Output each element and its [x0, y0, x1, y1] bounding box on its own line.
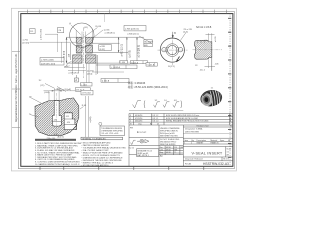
svg-text:.XX ±.01 .XXX ±.005: .XX ±.01 .XXX ±.005 [101, 133, 118, 135]
extension lines to right dims [93, 37, 158, 65]
svg-text:FW: FW [130, 128, 133, 130]
name grid [164, 146, 166, 155]
leader arc left of flange [66, 62, 72, 68]
svg-text:REMOVE BURRS: REMOVE BURRS [160, 144, 176, 146]
arrows on left dim chain [66, 37, 68, 63]
svg-text:INSERT: INSERT [197, 143, 205, 145]
svg-text:3RD ANGLE PROJ: 3RD ANGLE PROJ [160, 141, 176, 144]
svg-text:体积: 3.369346: 体积: 3.369346 [128, 81, 146, 85]
section profile hatched [194, 40, 211, 59]
svg-text:10. SAMPLE INSPECTION PLAN AQL: 10. SAMPLE INSPECTION PLAN AQL 1.0 LVL I… [35, 163, 80, 166]
below-part extension lines [64, 63, 96, 75]
svg-text:Spec: Spec [220, 140, 224, 142]
parts header rows [183, 137, 233, 139]
svg-text:[19.05]: [19.05] [23, 42, 30, 44]
svg-text:By: By [150, 123, 152, 125]
svg-text:Item: Item [184, 139, 188, 142]
FCF stacked boxes [144, 40, 152, 44]
left zone ticks [12, 52, 21, 128]
column divider lines [158, 125, 160, 166]
svg-text:1.6: 1.6 [164, 100, 167, 102]
svg-text:TOLERANCES UNLESS: TOLERANCES UNLESS [101, 127, 123, 130]
svg-text:GENERAL TOLERANCES: GENERAL TOLERANCES [82, 137, 106, 140]
svg-text:15°: 15° [29, 96, 32, 98]
left small hole [162, 48, 166, 52]
right col texts [184, 124, 232, 165]
svg-text:DO NOT SCALE DWG: DO NOT SCALE DWG [160, 138, 180, 141]
svg-text:JW: JW [180, 147, 183, 149]
extra check symbol in cell [131, 140, 136, 144]
svg-text:[4.3]: [4.3] [184, 32, 188, 34]
svg-text:E x c e l: E x c e l [137, 130, 147, 134]
svg-text:[8.51]: [8.51] [100, 49, 106, 51]
boxed dim top-left [58, 28, 64, 33]
svg-text:1:1: 1:1 [211, 88, 214, 90]
svg-text:Sh 1/1: Sh 1/1 [223, 159, 228, 161]
svg-text:Revision chart: Revision chart [197, 124, 209, 127]
left angle leaders [31, 98, 42, 104]
paper edge [11, 8, 236, 171]
main horizontal divisions (left+mid cols) [129, 137, 183, 139]
boxed dim right of part [99, 45, 112, 51]
svg-text:.197±.002: .197±.002 [82, 93, 92, 95]
closing parenthesis [180, 101, 183, 109]
svg-text:[⌀19.037±.013]: [⌀19.037±.013] [41, 62, 55, 65]
part mid-left ring block (hatched) [76, 46, 82, 53]
svg-text:TL: TL [174, 152, 176, 154]
top shadow crescent [201, 90, 214, 96]
svg-text:Eng: Eng [160, 152, 163, 154]
svg-text:(⌀.875): (⌀.875) [129, 50, 132, 58]
svg-text:(4:1): (4:1) [84, 27, 88, 29]
svg-text:SEE SHEET NOTES: SEE SHEET NOTES [160, 136, 178, 138]
svg-text:.015: .015 [66, 116, 70, 118]
top ruler ticks [28, 10, 227, 14]
svg-text:Allgemeintoleranzen ISO 2768-m: Allgemeintoleranzen ISO 2768-mK / Form u… [15, 53, 18, 122]
slot lines [166, 47, 168, 49]
svg-text:1: 1 [191, 143, 192, 145]
slot extension lines [44, 90, 89, 101]
svg-text:Designation: V-SEAL: Designation: V-SEAL [185, 127, 203, 130]
svg-text:⌀.7495±.0005: ⌀.7495±.0005 [41, 59, 55, 62]
material box [137, 149, 159, 157]
hatched body with T cavity (even-odd) [35, 98, 79, 135]
check 3 [173, 102, 179, 108]
section cutting arrow lower-right [177, 57, 180, 61]
svg-text:⌀.433 [11.0]: ⌀.433 [11.0] [120, 44, 123, 56]
detail bubble circle [70, 23, 94, 47]
slot centerline [56, 93, 58, 134]
svg-text:03/04/16: 03/04/16 [135, 121, 142, 123]
FCF row right of part [130, 61, 147, 64]
svg-text:⌀.906 [⌀23.01]: ⌀.906 [⌀23.01] [125, 28, 139, 31]
svg-text:[12.0]: [12.0] [87, 73, 93, 75]
svg-text:⌀.610: ⌀.610 [54, 88, 60, 91]
body [199, 88, 223, 107]
svg-text:1:1: 1:1 [227, 151, 230, 153]
svg-text:Scale: Scale [227, 149, 232, 151]
svg-text:Description: Description [197, 139, 206, 142]
svg-text:⌀.335 [8.5]: ⌀.335 [8.5] [105, 31, 115, 34]
svg-text:15°: 15° [39, 80, 42, 82]
extra ext lines above part [58, 29, 125, 72]
svg-text:09/10/16: 09/10/16 [135, 115, 142, 117]
svg-text:A (4:1): A (4:1) [58, 135, 65, 138]
svg-text:⌀(.40): ⌀(.40) [89, 116, 92, 122]
bottom zone ticks [40, 166, 204, 170]
outer frame [18, 11, 234, 168]
svg-text:1: 1 [130, 121, 131, 123]
svg-text:DX 1.2: DX 1.2 [153, 115, 159, 117]
svg-text:2X ⌀.170: 2X ⌀.170 [184, 28, 193, 31]
svg-text:R.010: R.010 [96, 26, 102, 28]
svg-text:Dwg state: Released: Dwg state: Released [185, 158, 202, 161]
svg-text:(⌀.59): (⌀.59) [104, 28, 110, 31]
svg-text:3.2: 3.2 [155, 100, 158, 102]
bubble leader [71, 25, 80, 34]
right leader [80, 107, 84, 110]
svg-text:Fmt A3: Fmt A3 [185, 162, 191, 165]
front face [200, 92, 213, 107]
svg-text:⌀.335: ⌀.335 [100, 45, 106, 48]
short vertical dim line right of part [97, 55, 99, 74]
svg-text:Ra 3.2: Ra 3.2 [129, 147, 135, 149]
horizontal centerline [158, 49, 188, 51]
svg-text:MAT: NOTE 1: MAT: NOTE 1 [137, 154, 149, 157]
datum FCF below-left [146, 63, 157, 67]
svg-text:Chg: Chg [138, 123, 141, 125]
main frame [21, 14, 233, 167]
FCF row box under part [110, 65, 137, 69]
svg-text:ECN 16-0108 ADDED NOTE 5 & DIM: ECN 16-0108 ADDED NOTE 5 & DIM [166, 117, 198, 120]
part mid-right ring block (hatched) [86, 46, 93, 53]
svg-text:Material: Material [211, 139, 218, 142]
leader to hole [180, 33, 186, 42]
part top-left ring block (hatched) [76, 37, 82, 43]
mid circle [166, 44, 179, 57]
svg-text:⌀1.06 [26.9]: ⌀1.06 [26.9] [137, 45, 140, 58]
svg-text:2: 2 [130, 118, 131, 120]
svg-text:⌀.750: ⌀.750 [23, 39, 29, 42]
datum flag A [75, 78, 79, 82]
svg-text:Schnitt 1:1 B-B: Schnitt 1:1 B-B [196, 26, 212, 29]
vertical centerline [171, 35, 173, 66]
circled note marker [99, 122, 102, 125]
cavity step lines [52, 119, 75, 124]
svg-text:⌀.375 [9.5]: ⌀.375 [9.5] [68, 72, 78, 75]
dim arrows above [52, 90, 62, 92]
right ruler [228, 15, 231, 165]
svg-text:7°: 7° [29, 114, 31, 116]
big check symbol [133, 101, 141, 108]
rib stripes [210, 89, 220, 106]
svg-text:⊙⌀.01 A: ⊙⌀.01 A [131, 61, 139, 64]
top dim cluster leaders [80, 28, 103, 41]
svg-text:A3: A3 [227, 154, 229, 157]
svg-text:⌀.547: ⌀.547 [64, 65, 70, 68]
svg-text:Apv: Apv [160, 155, 163, 158]
second FCF row box below part [101, 79, 129, 83]
svg-text:⌖ ⌀.01 A: ⌖ ⌀.01 A [147, 63, 155, 66]
svg-text:⌀.575±.002: ⌀.575±.002 [39, 28, 42, 40]
small top leader mark [103, 14, 105, 22]
groove band lines [76, 44, 92, 53]
part top-right ring block (hatched) [86, 37, 93, 43]
svg-text:• STORE PER SAE ARP5316: • STORE PER SAE ARP5316 [82, 164, 110, 167]
small 2-cell box below part [81, 83, 93, 86]
groove notches on left edge [198, 40, 204, 43]
bore hole [204, 97, 209, 102]
section horizontal centerline [193, 49, 223, 51]
svg-text:(.024): (.024) [44, 92, 50, 94]
title block texts [129, 128, 184, 158]
parenthesis [143, 101, 146, 109]
top section arrow [172, 32, 174, 37]
svg-text:∥ .002 A: ∥ .002 A [102, 80, 110, 83]
angled leader to circle [139, 36, 152, 44]
svg-text:1: 1 [184, 143, 185, 145]
part flange-right block (hatched) [86, 55, 97, 63]
svg-text:09/16: 09/16 [166, 152, 171, 154]
small box far top-left [30, 29, 35, 34]
svg-text:⊥ .001: ⊥ .001 [81, 83, 87, 86]
svg-text:15°: 15° [195, 65, 198, 67]
boxed note right of detail [100, 126, 125, 136]
svg-text:0.8: 0.8 [174, 100, 177, 102]
dim arrows below [205, 65, 216, 67]
long extension line left [30, 41, 78, 43]
flange mid line [73, 58, 82, 60]
svg-text:HSSTRW-032-A3: HSSTRW-032-A3 [203, 162, 229, 166]
svg-text:ECN 16-0214 REV PER DWG 1.05: ECN 16-0214 REV PER DWG 1.05 min [166, 115, 199, 117]
svg-text:材质: 25.50-123.48/W (3904-2013): 材质: 25.50-123.48/W (3904-2013) [128, 85, 168, 89]
left dim chain [67, 37, 77, 63]
svg-text:(.21): (.21) [40, 85, 45, 87]
svg-text:.020: .020 [67, 122, 71, 124]
right face edge/extension line [211, 41, 213, 71]
svg-text:Qty: Qty [191, 139, 194, 142]
svg-text:A: A [75, 78, 77, 82]
dwg row divider [183, 133, 233, 135]
boxed dim row left-low [40, 58, 64, 66]
bore circle [168, 45, 177, 54]
svg-text:.126: .126 [53, 120, 57, 122]
svg-text:V-SEAL INSERT: V-SEAL INSERT [192, 151, 223, 155]
svg-text:INITIAL RELEASE FOR PRODUCTION: INITIAL RELEASE FOR PRODUCTION TOOLING [166, 120, 209, 123]
boxed dim left of FCF row [120, 61, 128, 64]
outer circle [160, 38, 184, 62]
right col: revision chart band [183, 126, 233, 128]
below-part long ext lines [85, 63, 87, 84]
title cell separator [225, 147, 227, 158]
svg-text:HNBR 70: HNBR 70 [211, 143, 219, 145]
right vertical dimension lines [119, 37, 137, 63]
check 2 [163, 102, 169, 108]
right small hole [178, 48, 182, 52]
boxed dim above detail right [81, 90, 93, 95]
projection symbol [137, 139, 149, 143]
part vertical centerline [83, 28, 85, 79]
svg-text:3: 3 [130, 115, 131, 117]
svg-text:DX 1.0: DX 1.0 [153, 121, 159, 123]
svg-text:⌀1.31: ⌀1.31 [214, 36, 217, 42]
right notes header box [81, 137, 123, 140]
part flange-left block (hatched) [73, 55, 82, 63]
svg-text:INCH [mm] ⌀.005: INCH [mm] ⌀.005 [160, 132, 175, 135]
svg-text:⌀.846 [21.5]: ⌀.846 [21.5] [127, 33, 138, 36]
right vertical ext lines + rotated dim [85, 96, 87, 138]
left notes header bar [35, 139, 76, 141]
svg-text:07/22/16: 07/22/16 [135, 118, 142, 120]
svg-text:1.094: 1.094 [120, 62, 125, 64]
face ring line [201, 93, 212, 105]
svg-text:.21±.1: .21±.1 [199, 69, 206, 71]
svg-text:DX 1.1: DX 1.1 [153, 118, 159, 120]
svg-text:DWG: HSSTRW: DWG: HSSTRW [185, 132, 199, 134]
check 1 [154, 102, 160, 108]
boxed dim left of circle [124, 26, 146, 31]
svg-text:B (1:1): B (1:1) [168, 66, 175, 68]
svg-text:⊥ .0005 A: ⊥ .0005 A [111, 66, 121, 69]
